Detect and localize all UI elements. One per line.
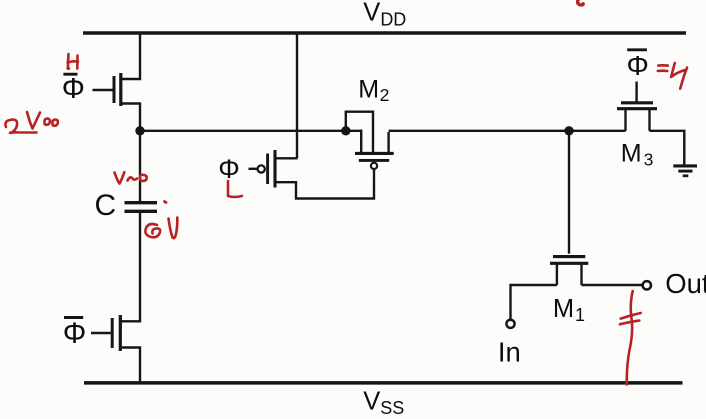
svg-text:In: In xyxy=(498,337,521,368)
svg-text:Φ: Φ xyxy=(63,317,87,350)
svg-text:Φ: Φ xyxy=(62,73,85,105)
svg-text:Out: Out xyxy=(665,268,706,299)
svg-text:C: C xyxy=(95,189,117,222)
svg-text:M1: M1 xyxy=(553,295,585,325)
svg-text:M3: M3 xyxy=(621,139,654,169)
svg-text:VSS: VSS xyxy=(363,387,404,418)
svg-text:VDD: VDD xyxy=(363,0,406,30)
svg-text:Φ: Φ xyxy=(218,154,240,184)
svg-text:M2: M2 xyxy=(358,76,389,105)
svg-text:Φ: Φ xyxy=(627,50,649,81)
